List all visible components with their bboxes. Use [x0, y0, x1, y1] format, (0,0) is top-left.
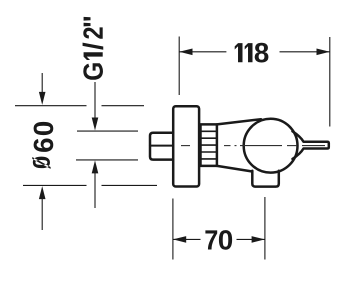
knurl rib 1 — [201, 130, 217, 132]
G half-inch up-arrow shaft — [94, 172, 96, 209]
label diameter 60 (rotated) — [32, 122, 53, 169]
G half-inch top reference line — [77, 130, 138, 132]
bottom outlet stub — [252, 171, 278, 187]
dia60 down-arrow shaft — [41, 73, 43, 94]
G half-inch up arrowhead — [92, 160, 99, 173]
union nut (wall inlet connector) — [150, 133, 173, 160]
wall flange — [173, 106, 199, 186]
G half-inch bottom reference line — [76, 159, 138, 161]
dim text 118 — [235, 43, 269, 63]
label G1/2 inch (rotated) — [83, 17, 104, 80]
dim 118 right arrowhead — [317, 49, 330, 56]
dim 70 line right segment — [237, 238, 265, 240]
lever spout — [293, 131, 329, 159]
dim 118 left extension line — [178, 37, 180, 96]
dia60 bottom reference line left part — [23, 184, 87, 186]
knurl rib 2 — [201, 137, 217, 139]
cone body bottom edge — [217, 166, 252, 172]
dia60 up-arrow shaft — [41, 198, 43, 231]
horizontal centre line (dash-dot segments) — [181, 145, 325, 147]
G half-inch down arrowhead — [92, 118, 99, 131]
knurl rib 3 — [201, 144, 217, 146]
cone body top edge — [217, 119, 261, 124]
dim 70 right extension line — [264, 197, 266, 260]
dia60 down arrowhead — [39, 92, 46, 105]
G half-inch down-arrow shaft — [94, 82, 96, 120]
knurled nut body — [201, 124, 217, 165]
dim text 70 — [205, 230, 232, 250]
dim 70 left arrowhead — [173, 236, 186, 243]
dim 118 line right segment — [280, 51, 330, 53]
knurl rib 4 — [201, 151, 217, 153]
dim 118 left arrowhead — [179, 49, 192, 56]
dia60 top reference line left part — [15, 105, 87, 107]
dim 70 left extension line — [172, 199, 174, 260]
dim 118 right extension line — [329, 37, 331, 127]
dim 70 right arrowhead — [252, 236, 265, 243]
dia60 up arrowhead — [39, 186, 46, 199]
dim 118 line left segment — [179, 51, 226, 53]
dia60 top reference line right part — [102, 105, 145, 107]
dim 70 line left segment — [173, 238, 201, 240]
union nut mid line — [150, 145, 172, 147]
valve head circle — [244, 119, 298, 173]
knurl rib 5 — [201, 158, 217, 160]
dia60 bottom reference line right part — [102, 184, 158, 186]
